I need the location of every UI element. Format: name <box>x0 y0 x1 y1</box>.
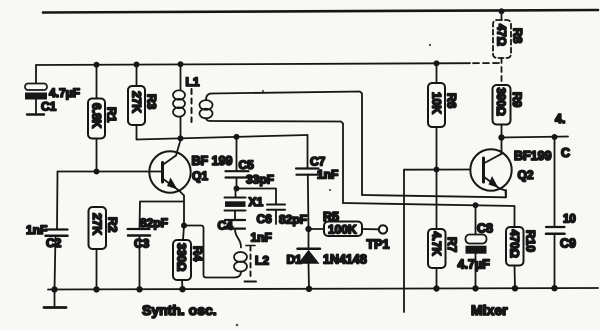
resistor R5 100K <box>309 222 363 237</box>
node: rail / R8 junction <box>499 8 505 14</box>
capacitor C2 1nF <box>46 172 68 290</box>
L2 core (dashed) <box>245 246 257 282</box>
wire: Q1 base wire <box>58 171 163 173</box>
node: R9 / Q2 collector / output <box>498 134 504 140</box>
svg-text:C4: C4 <box>218 219 234 233</box>
svg-text:C5: C5 <box>239 158 255 172</box>
wire: bottom ground rail <box>48 288 598 290</box>
svg-text:R7: R7 <box>445 237 459 253</box>
node: loop / C8 <box>473 202 479 208</box>
resistor R4 330ohm <box>173 226 191 290</box>
inductor L1 secondary winding <box>200 94 213 122</box>
svg-text:10K: 10K <box>429 92 443 114</box>
node: rail / C2 <box>51 286 57 292</box>
node: C5 / X1 / C6 junction <box>234 186 240 192</box>
svg-text:47Ω: 47Ω <box>494 24 506 46</box>
node: base / R1-R2 divider <box>94 169 100 175</box>
capacitor C8 4.7uF electrolytic <box>466 205 487 289</box>
svg-text:C2: C2 <box>46 236 62 250</box>
svg-text:C3: C3 <box>134 237 150 251</box>
svg-text:C9: C9 <box>560 237 576 251</box>
diode D1 1N4148 <box>298 229 321 289</box>
node: rail / R10 <box>512 285 518 291</box>
svg-text:100K: 100K <box>328 223 357 237</box>
wire: secondary top loop to x=362 <box>211 92 362 196</box>
node: rail / R4 <box>179 286 185 292</box>
svg-text:1N4148: 1N4148 <box>323 253 367 267</box>
svg-text:TP1: TP1 <box>367 238 390 252</box>
resistor R9 390ohm <box>493 85 511 154</box>
svg-text:Q2: Q2 <box>518 168 534 182</box>
svg-text:C8: C8 <box>477 222 493 236</box>
svg-text:L1: L1 <box>186 75 200 89</box>
capacitor C5 33pF <box>226 137 249 189</box>
svg-text:1nF: 1nF <box>317 168 338 182</box>
svg-text:10: 10 <box>563 214 576 226</box>
svg-text:1nF: 1nF <box>251 231 272 245</box>
svg-text:BF199: BF199 <box>514 149 552 163</box>
transistor Q2 BF199 <box>470 149 511 197</box>
svg-text:Q1: Q1 <box>192 169 208 183</box>
capacitor C4 1nF <box>225 220 245 248</box>
wire: collector bus from R3 to C7 <box>137 135 308 140</box>
crystal X1 <box>225 189 246 220</box>
ground symbol <box>44 290 66 308</box>
svg-text:Mixer: Mixer <box>471 302 508 318</box>
svg-text:Synth. osc.: Synth. osc. <box>142 302 217 318</box>
inductor L1 primary winding <box>173 64 185 138</box>
scan speckles <box>236 44 431 327</box>
capacitor C1 4.7uF electrolytic <box>25 84 47 115</box>
svg-text:82pF: 82pF <box>279 213 307 227</box>
svg-text:82pF: 82pF <box>140 216 168 230</box>
svg-text:C: C <box>561 146 570 160</box>
svg-text:R10: R10 <box>524 230 538 252</box>
svg-text:C7: C7 <box>310 155 326 169</box>
svg-text:4.7µF: 4.7µF <box>458 258 491 272</box>
capacitor C3 82pF <box>128 202 185 290</box>
svg-text:R6: R6 <box>445 93 459 109</box>
svg-text:R4: R4 <box>191 246 205 262</box>
resistor R3 27K <box>128 65 145 140</box>
capacitor C9 10n <box>546 137 565 289</box>
svg-text:L2: L2 <box>255 254 269 268</box>
node: Q1 emitter / R4 <box>181 223 187 229</box>
node: rail / R7 <box>433 285 439 291</box>
svg-text:R1: R1 <box>105 107 119 123</box>
wire: long vertical off-page lead crossing ground rail <box>403 170 405 312</box>
resistor R6 10K <box>428 63 445 169</box>
test point TP1 <box>362 225 387 233</box>
transistor Q1 BF199 <box>149 140 190 226</box>
svg-text:BF 199: BF 199 <box>192 154 233 168</box>
svg-text:C1: C1 <box>41 100 57 114</box>
node: bus / R3 <box>134 62 140 68</box>
svg-text:D1: D1 <box>287 253 303 267</box>
node: output / C9 <box>552 134 558 140</box>
node: bus / R1 <box>94 62 100 68</box>
node: rail / R2 <box>93 286 99 292</box>
svg-text:6.8K: 6.8K <box>89 103 103 129</box>
L1 core (dashed) <box>191 89 193 122</box>
svg-text:27K: 27K <box>90 213 104 235</box>
svg-text:33pF: 33pF <box>246 173 274 187</box>
capacitor C7 1nF <box>296 135 319 229</box>
node: C7 / R5 / D1 junction <box>305 226 311 232</box>
svg-text:330Ω: 330Ω <box>175 243 187 271</box>
resistor R2 27K <box>89 207 107 289</box>
node: bus / L1 <box>178 61 184 67</box>
svg-text:X1: X1 <box>249 195 264 209</box>
svg-text:C6: C6 <box>257 212 273 226</box>
svg-text:R3: R3 <box>145 94 159 110</box>
wire: loop lower run to Q2 emitter <box>362 190 506 197</box>
node: rail / C9 <box>551 285 557 291</box>
wire: Q2 base wire <box>404 169 471 171</box>
wire: loop lower run to C8 / R10 <box>343 203 515 227</box>
wire: emitter node step-wire to L2 bottom <box>184 226 234 278</box>
capacitor C6 82pF <box>237 189 286 225</box>
resistor R8 47ohm (dashed, optional) <box>493 11 511 85</box>
svg-text:1nF: 1nF <box>26 223 47 237</box>
wire: secondary bottom loop to x=343 <box>211 121 343 203</box>
node: bus / R6 <box>434 60 440 66</box>
wire: main horizontal supply bus y=64 <box>36 63 470 65</box>
svg-text:390Ω: 390Ω <box>494 88 506 116</box>
node: wire / C5 <box>234 134 240 140</box>
wire: bus corner down to C1 <box>35 65 37 83</box>
inductor L2 <box>234 252 247 278</box>
svg-text:R2: R2 <box>106 217 120 233</box>
node: rail / D1 <box>306 286 312 292</box>
resistor R1 6.8K <box>88 65 105 172</box>
node: base / R6-R7 divider <box>434 167 440 173</box>
wire: top supply rail <box>43 10 598 13</box>
svg-text:R9: R9 <box>510 92 524 108</box>
svg-text:4.7µF: 4.7µF <box>49 86 80 100</box>
node: wire / Q1 collector + L1 <box>178 135 184 141</box>
svg-text:4.: 4. <box>555 112 565 126</box>
wire: dashed end of supply bus at R8/R9 <box>473 62 502 64</box>
node: rail / C3 <box>136 286 142 292</box>
wire: collector output to C9 <box>502 137 569 138</box>
node: rail / C8 <box>472 285 478 291</box>
svg-text:27K: 27K <box>129 91 143 113</box>
svg-text:470Ω: 470Ω <box>507 230 519 258</box>
svg-text:R8: R8 <box>511 28 525 44</box>
resistor R7 4.7K <box>428 170 446 290</box>
svg-text:4.7K: 4.7K <box>430 232 442 257</box>
resistor R10 470ohm <box>506 227 524 289</box>
